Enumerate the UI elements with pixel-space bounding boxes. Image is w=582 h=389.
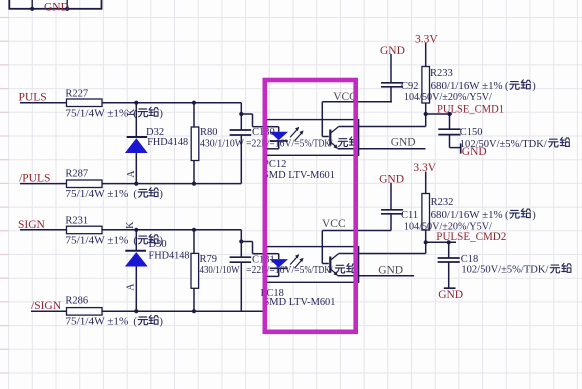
svg-text:R231: R231 (65, 215, 88, 226)
svg-text:GND: GND (379, 174, 404, 186)
svg-text:102/50V/±5%/TDK/: 102/50V/±5%/TDK/ (461, 265, 548, 276)
svg-text:FHD4148: FHD4148 (147, 137, 188, 148)
svg-text:C11: C11 (401, 210, 418, 221)
svg-text:GND: GND (438, 289, 463, 301)
svg-text:R80: R80 (200, 127, 218, 138)
svg-text:R286: R286 (65, 296, 88, 307)
svg-text:104/50V/±20%/Y5V/: 104/50V/±20%/Y5V/ (404, 92, 492, 103)
svg-text:75/1/4W ±1%: 75/1/4W ±1% (65, 109, 128, 120)
svg-text:GND: GND (378, 264, 403, 276)
svg-text:(: ( (133, 189, 137, 200)
svg-text:R79: R79 (200, 254, 218, 265)
svg-text:430/1/10W: 430/1/10W (200, 265, 240, 276)
svg-text:75/1/4W ±1%: 75/1/4W ±1% (65, 317, 128, 328)
svg-text:): ) (159, 317, 163, 328)
svg-text:SMD LTV-M601: SMD LTV-M601 (264, 297, 336, 308)
svg-text:680/1/16W ±1%: 680/1/16W ±1% (431, 81, 503, 92)
svg-text:%/TDK/: %/TDK/ (305, 265, 333, 276)
svg-text:D30: D30 (149, 239, 167, 250)
svg-text:(: ( (133, 317, 137, 328)
svg-text:C18: C18 (461, 254, 479, 265)
svg-text:PULSE_CMD1: PULSE_CMD1 (437, 103, 504, 115)
svg-text:(: ( (505, 81, 509, 92)
svg-text:): ) (532, 210, 536, 221)
svg-text:R227: R227 (65, 88, 88, 99)
svg-text:FHD4148: FHD4148 (149, 251, 190, 262)
svg-text:%/TDK/: %/TDK/ (305, 138, 333, 149)
svg-text:3.3V: 3.3V (415, 33, 438, 45)
svg-text:R233: R233 (430, 68, 453, 79)
svg-text:75/1/4W ±1%: 75/1/4W ±1% (65, 189, 128, 200)
svg-text:C92: C92 (401, 81, 419, 92)
svg-text:K: K (125, 221, 136, 229)
svg-text:75/1/4W ±1%: 75/1/4W ±1% (65, 236, 128, 247)
svg-text:SMD LTV-M601: SMD LTV-M601 (263, 170, 335, 181)
svg-text:R232: R232 (431, 197, 454, 208)
svg-text:GND: GND (391, 136, 416, 148)
svg-text:A: A (126, 283, 137, 291)
svg-text:K: K (126, 108, 137, 116)
svg-text:GND: GND (380, 45, 405, 57)
svg-text:(: ( (133, 236, 137, 247)
svg-text:PULSE_CMD2: PULSE_CMD2 (436, 231, 506, 243)
svg-text:430/1/10W: 430/1/10W (200, 138, 244, 149)
svg-text:): ) (159, 189, 163, 200)
svg-text:A: A (126, 170, 137, 178)
svg-text:SIGN: SIGN (18, 219, 46, 231)
svg-text:): ) (532, 81, 536, 92)
svg-text:680/1/16W ±1%: 680/1/16W ±1% (431, 210, 503, 221)
svg-text:(: ( (505, 210, 509, 221)
svg-text:=22F/=16V/=5: =22F/=16V/=5 (246, 265, 305, 276)
svg-text:VCC: VCC (322, 218, 346, 230)
svg-text:GND: GND (44, 1, 69, 13)
svg-text:=22F/=16V/=5: =22F/=16V/=5 (246, 138, 305, 149)
svg-text:102/50V/±5%/TDK/: 102/50V/±5%/TDK/ (460, 139, 547, 150)
svg-text:/PULS: /PULS (19, 173, 50, 185)
svg-text:): ) (159, 109, 163, 120)
svg-text:R287: R287 (65, 169, 88, 180)
svg-text:C150: C150 (460, 127, 483, 138)
svg-text:/SIGN: /SIGN (31, 300, 62, 312)
svg-text:PULS: PULS (19, 92, 47, 104)
